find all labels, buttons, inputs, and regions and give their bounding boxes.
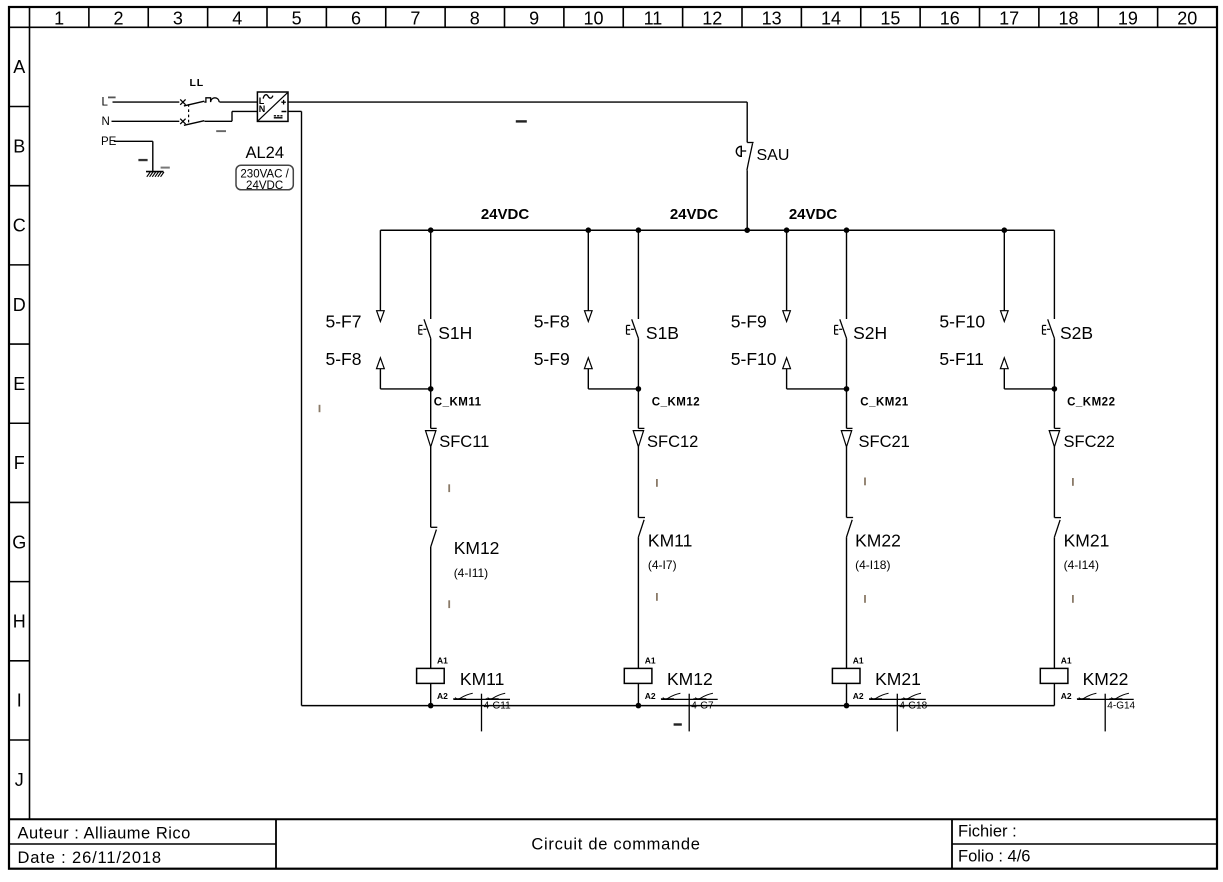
svg-text:A2: A2 — [645, 691, 656, 701]
label KM22 — [855, 531, 901, 551]
label 5-F7 — [326, 312, 362, 332]
svg-text:A2: A2 — [1061, 691, 1072, 701]
pin A2 — [437, 691, 448, 701]
wire mark — [864, 478, 866, 486]
svg-text:1: 1 — [54, 8, 64, 28]
svg-text:5-F8: 5-F8 — [326, 349, 362, 369]
svg-text:5-F10: 5-F10 — [939, 312, 985, 332]
node PE — [101, 136, 117, 148]
label AL24 — [246, 144, 285, 162]
terminal mark PE 1 — [138, 159, 147, 161]
coil KM21 — [832, 668, 860, 705]
label (4-I18) — [855, 558, 890, 572]
label S1B — [646, 323, 679, 343]
svg-text:4-G7: 4-G7 — [691, 701, 714, 712]
svg-text:Circuit de commande: Circuit de commande — [531, 836, 700, 854]
svg-text:S2B: S2B — [1060, 323, 1093, 343]
svg-text:A1: A1 — [1061, 656, 1072, 666]
svg-text:(4-I14): (4-I14) — [1064, 558, 1099, 572]
svg-text:Folio : 4/6: Folio : 4/6 — [958, 848, 1030, 866]
title block — [18, 823, 1031, 868]
node N — [102, 116, 110, 128]
svg-text:3: 3 — [173, 8, 183, 28]
contact KM22 (NC) — [847, 518, 854, 669]
junction node C_KM22 — [1052, 386, 1058, 392]
svg-text:8: 8 — [470, 8, 480, 28]
breaker LL pole 1 (L) — [180, 99, 204, 106]
svg-text:F: F — [14, 453, 25, 473]
svg-text:4-G11: 4-G11 — [484, 701, 511, 712]
label C_KM21 — [860, 396, 908, 408]
off-page connector 5-F9 (incoming, up arrow) — [584, 358, 638, 389]
connector SFC11 — [426, 389, 437, 447]
svg-text:14: 14 — [821, 8, 841, 28]
svg-text:KM22: KM22 — [1083, 669, 1129, 689]
equipotential mark — [516, 120, 527, 122]
svg-text:SFC21: SFC21 — [859, 433, 910, 451]
label KM12 — [667, 669, 713, 689]
svg-text:PE: PE — [101, 136, 117, 148]
svg-text:E: E — [13, 374, 25, 394]
svg-text:D: D — [13, 295, 26, 315]
wire PE — [114, 141, 153, 171]
wire mark — [448, 600, 450, 608]
label 24VDC (2) — [670, 206, 719, 223]
off-page connector 5-F10 (incoming, up arrow) — [783, 358, 847, 389]
switch S1H — [419, 319, 431, 389]
svg-text:A: A — [13, 57, 25, 77]
breaker LL mechanical link — [188, 104, 190, 123]
svg-text:5: 5 — [292, 8, 302, 28]
svg-text:C_KM11: C_KM11 — [434, 396, 482, 408]
label S2B — [1060, 323, 1093, 343]
off-page connector 5-F7 (outgoing, down arrow) — [377, 230, 385, 321]
svg-text:20: 20 — [1177, 8, 1197, 28]
svg-text:11: 11 — [644, 8, 663, 28]
value label 230VAC / 24VDC — [236, 165, 293, 192]
junction node C_KM21 — [844, 386, 850, 392]
svg-text:I: I — [17, 691, 22, 711]
label 5-F8 — [534, 312, 570, 332]
connector SFC21 — [841, 389, 852, 447]
wire bus to switch S2B — [1053, 230, 1055, 319]
equipotential mark branch2 — [674, 723, 682, 725]
pin A2 — [853, 691, 864, 701]
wire — [846, 447, 848, 518]
junction node C_KM12 — [636, 386, 642, 392]
wire 24VDC bus — [380, 229, 1054, 231]
coil KM11 — [417, 668, 445, 705]
wire mark — [656, 593, 658, 601]
pin A2 — [645, 691, 656, 701]
svg-text:6: 6 — [351, 8, 361, 28]
stray mark row E left — [319, 405, 321, 412]
svg-text:AL24: AL24 — [246, 144, 285, 162]
svg-text:SFC22: SFC22 — [1064, 433, 1115, 451]
label S2H — [853, 323, 887, 343]
svg-text:5-F9: 5-F9 — [534, 349, 570, 369]
label 5-F10 — [731, 349, 777, 369]
svg-text:J: J — [15, 770, 24, 790]
pin A1 — [437, 656, 448, 666]
junction 0V rail — [844, 703, 850, 709]
svg-text:4-G14: 4-G14 — [1107, 701, 1135, 712]
svg-text:4: 4 — [232, 8, 242, 28]
svg-text:KM11: KM11 — [460, 669, 504, 689]
breaker LL pole 2 (N) — [180, 119, 204, 126]
svg-text:16: 16 — [940, 8, 960, 28]
cross-reference 4-G14 — [1077, 693, 1136, 731]
svg-text:5-F11: 5-F11 — [939, 349, 983, 369]
off-page connector 5-F8 (incoming, up arrow) — [377, 358, 431, 389]
junction 0V rail — [636, 703, 642, 709]
label SFC11 — [439, 433, 489, 451]
svg-text:A2: A2 — [437, 691, 448, 701]
wire mark — [864, 595, 866, 603]
label KM11 — [648, 531, 692, 551]
switch S2H — [835, 319, 847, 389]
off-page connector 5-F9 (outgoing, down arrow) — [783, 227, 791, 321]
wire mark — [1072, 478, 1074, 486]
svg-text:S2H: S2H — [853, 323, 887, 343]
wire bus to switch S1H — [428, 227, 434, 319]
svg-text:LL: LL — [190, 77, 204, 89]
svg-text:24VDC: 24VDC — [789, 206, 838, 223]
label KM12 — [454, 538, 500, 558]
label KM11 — [460, 669, 504, 689]
svg-text:S1B: S1B — [646, 323, 679, 343]
svg-text:17: 17 — [999, 8, 1019, 28]
svg-text:13: 13 — [762, 8, 782, 28]
svg-text:2: 2 — [114, 8, 124, 28]
wire bus to switch S1B — [636, 227, 642, 319]
wire 0V bottom rail — [302, 705, 1055, 707]
svg-text:L: L — [102, 97, 109, 109]
svg-text:24VDC: 24VDC — [481, 206, 530, 223]
svg-text:15: 15 — [880, 8, 900, 28]
node L — [102, 97, 109, 109]
label SAU — [757, 147, 790, 164]
svg-text:Auteur : Alliaume Rico: Auteur : Alliaume Rico — [18, 825, 191, 843]
contact KM21 (NC) — [1054, 518, 1061, 669]
cross-reference 4-G18 — [869, 693, 928, 731]
label (4-I11) — [454, 566, 488, 580]
power supply AL24 — [257, 92, 288, 121]
label 5-F11 — [939, 349, 983, 369]
label (4-I7) — [648, 558, 677, 572]
svg-text:Fichier :: Fichier : — [958, 823, 1017, 841]
contact KM12 (NC) — [431, 527, 438, 668]
label 24VDC (1) — [481, 206, 530, 223]
svg-text:C: C — [13, 216, 26, 236]
svg-text:N: N — [102, 116, 110, 128]
label LL — [190, 77, 204, 89]
label SFC12 — [647, 433, 698, 451]
svg-text:4-G18: 4-G18 — [899, 701, 927, 712]
svg-text:N: N — [259, 104, 266, 114]
label 5-F8 — [326, 349, 362, 369]
contact KM11 (NC) — [638, 518, 645, 669]
svg-text:12: 12 — [702, 8, 722, 28]
svg-text:KM21: KM21 — [875, 669, 921, 689]
terminal mark PE 2 — [161, 167, 170, 169]
label C_KM22 — [1067, 396, 1115, 408]
svg-text:Date : 26/11/2018: Date : 26/11/2018 — [18, 849, 162, 867]
connector SFC22 — [1049, 389, 1060, 447]
junction node C_KM11 — [428, 386, 434, 392]
label SFC22 — [1064, 433, 1115, 451]
svg-text:G: G — [12, 532, 26, 552]
svg-text:24VDC: 24VDC — [670, 206, 719, 223]
svg-text:5-F10: 5-F10 — [731, 349, 777, 369]
svg-text:5-F9: 5-F9 — [731, 312, 767, 332]
label KM21 — [1064, 531, 1110, 551]
wire — [637, 447, 639, 518]
svg-text:KM11: KM11 — [648, 531, 692, 551]
wire 0V from power supply — [288, 111, 302, 705]
svg-text:230VAC /: 230VAC / — [240, 169, 289, 181]
label 5-F10 — [939, 312, 985, 332]
terminal mark L — [108, 97, 116, 99]
svg-text:5-F8: 5-F8 — [534, 312, 570, 332]
svg-text:H: H — [13, 612, 26, 632]
svg-text:24VDC: 24VDC — [246, 180, 283, 192]
svg-text:C_KM21: C_KM21 — [860, 396, 908, 408]
pin A2 — [1061, 691, 1072, 701]
wire mark — [1072, 595, 1074, 603]
svg-text:(4-I11): (4-I11) — [454, 566, 488, 580]
wire N to power supply — [205, 111, 258, 121]
svg-text:(4-I18): (4-I18) — [855, 558, 890, 572]
label C_KM12 — [652, 396, 700, 408]
wire mark — [656, 479, 658, 487]
switch S2B — [1043, 319, 1055, 389]
junction 0V rail — [428, 703, 434, 709]
wire bus to switch S2H — [844, 227, 850, 319]
svg-text:18: 18 — [1059, 8, 1079, 28]
breaker LL thermal element — [204, 98, 257, 102]
label KM22 — [1083, 669, 1129, 689]
coil KM22 — [1040, 668, 1068, 705]
svg-text:SAU: SAU — [757, 147, 790, 164]
coil KM12 — [624, 668, 652, 705]
label SFC21 — [859, 433, 910, 451]
pin A1 — [1061, 656, 1072, 666]
off-page connector 5-F10 (outgoing, down arrow) — [1001, 227, 1009, 321]
svg-text:A2: A2 — [853, 691, 864, 701]
svg-text:C_KM22: C_KM22 — [1067, 396, 1115, 408]
svg-text:A1: A1 — [645, 656, 656, 666]
svg-text:5-F7: 5-F7 — [326, 312, 362, 332]
wire mark — [448, 484, 450, 492]
svg-text:SFC11: SFC11 — [439, 433, 489, 451]
cross-reference 4-G7 — [661, 693, 718, 731]
terminal mark N pole — [216, 130, 226, 132]
label 5-F9 — [731, 312, 767, 332]
pin A1 — [853, 656, 864, 666]
label (4-I14) — [1064, 558, 1099, 572]
svg-text:S1H: S1H — [438, 323, 472, 343]
pin A1 — [645, 656, 656, 666]
cross-reference 4-G11 — [453, 693, 511, 731]
svg-text:KM12: KM12 — [454, 538, 500, 558]
svg-text:KM21: KM21 — [1064, 531, 1110, 551]
label C_KM11 — [434, 396, 482, 408]
svg-text:SFC12: SFC12 — [647, 433, 698, 451]
wire +24V rail — [288, 102, 747, 142]
wire — [1053, 447, 1055, 518]
svg-text:10: 10 — [584, 8, 604, 28]
connector SFC12 — [633, 389, 644, 447]
label S1H — [438, 323, 472, 343]
svg-text:KM22: KM22 — [855, 531, 901, 551]
svg-text:C_KM12: C_KM12 — [652, 396, 700, 408]
emergency stop SAU — [736, 143, 753, 231]
label 24VDC (3) — [789, 206, 838, 223]
svg-text:KM12: KM12 — [667, 669, 713, 689]
svg-text:A1: A1 — [853, 656, 864, 666]
wire — [430, 447, 432, 527]
wire N — [112, 120, 180, 122]
ground — [146, 172, 164, 177]
junction SAU / bus — [744, 227, 750, 233]
svg-text:(4-I7): (4-I7) — [648, 558, 677, 572]
off-page connector 5-F8 (outgoing, down arrow) — [585, 227, 593, 321]
svg-text:19: 19 — [1118, 8, 1138, 28]
label 5-F9 — [534, 349, 570, 369]
wire L — [113, 101, 180, 103]
svg-text:9: 9 — [529, 8, 539, 28]
switch S1B — [627, 319, 639, 389]
label KM21 — [875, 669, 921, 689]
svg-text:A1: A1 — [437, 656, 448, 666]
svg-text:7: 7 — [410, 8, 420, 28]
off-page connector 5-F11 (incoming, up arrow) — [1000, 358, 1054, 389]
svg-text:B: B — [13, 136, 25, 156]
